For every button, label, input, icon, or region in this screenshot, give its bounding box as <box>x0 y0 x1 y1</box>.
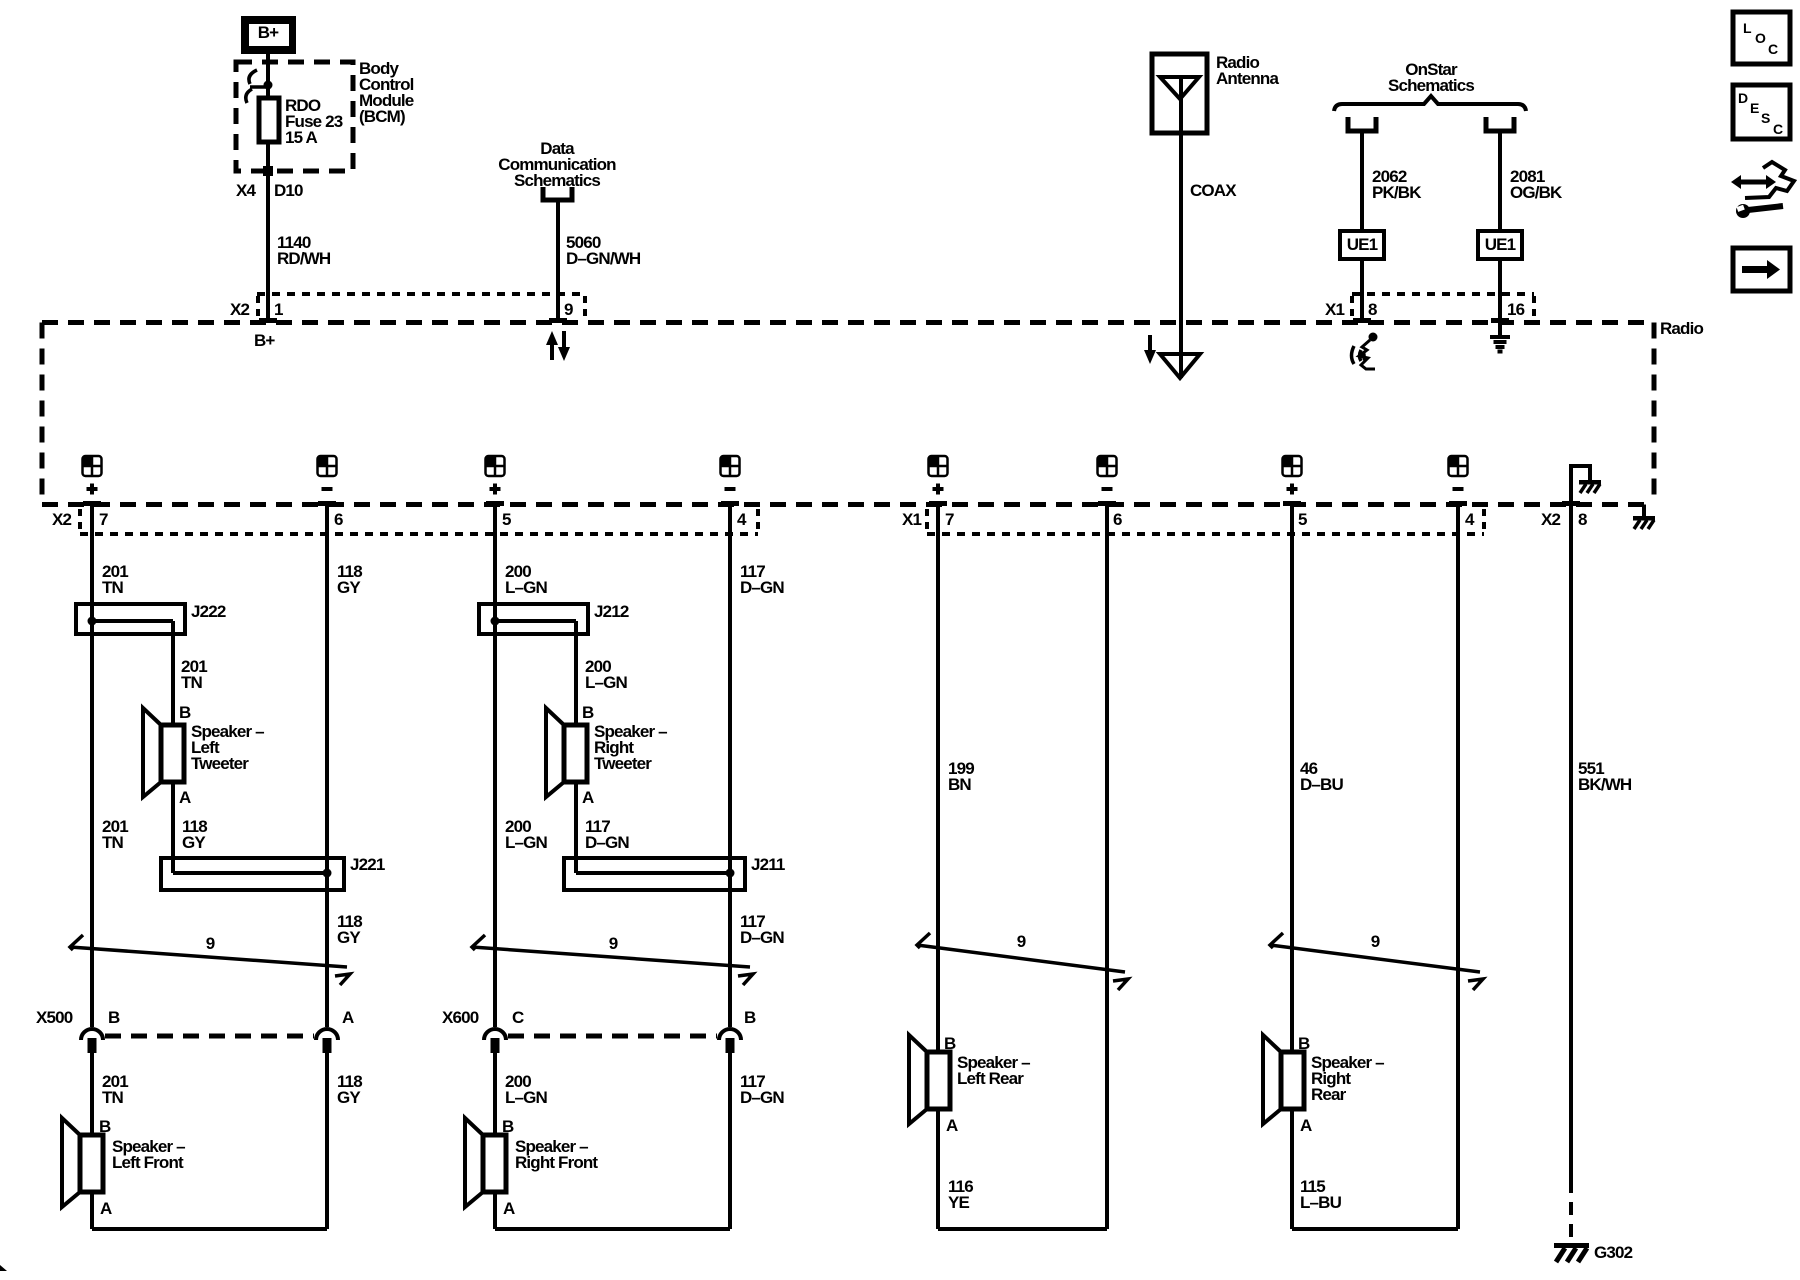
svg-text:GY: GY <box>337 1088 361 1107</box>
svg-text:Right Front: Right Front <box>515 1153 598 1172</box>
svg-text:D–BU: D–BU <box>1300 775 1343 794</box>
svg-text:6: 6 <box>334 510 343 529</box>
svg-text:8: 8 <box>1578 510 1587 529</box>
svg-text:TN: TN <box>102 578 124 597</box>
svg-text:Left Rear: Left Rear <box>957 1069 1024 1088</box>
svg-text:RD/WH: RD/WH <box>277 249 331 268</box>
svg-text:D: D <box>1738 90 1748 106</box>
svg-text:X2: X2 <box>52 510 71 529</box>
svg-text:J212: J212 <box>594 602 629 621</box>
svg-text:1: 1 <box>274 300 283 319</box>
svg-text:GY: GY <box>337 578 361 597</box>
svg-text:J222: J222 <box>191 602 226 621</box>
svg-text:UE1: UE1 <box>1485 235 1516 254</box>
svg-text:A: A <box>342 1008 354 1027</box>
svg-text:X1: X1 <box>902 510 921 529</box>
svg-text:J221: J221 <box>350 855 385 874</box>
svg-text:UE1: UE1 <box>1347 235 1378 254</box>
svg-text:X2: X2 <box>1541 510 1560 529</box>
svg-text:C: C <box>1773 121 1783 137</box>
svg-text:YE: YE <box>948 1193 969 1212</box>
svg-text:B: B <box>108 1008 120 1027</box>
svg-text:9: 9 <box>1017 932 1026 951</box>
svg-text:Left Front: Left Front <box>112 1153 184 1172</box>
svg-text:D–GN: D–GN <box>585 833 629 852</box>
svg-text:TN: TN <box>102 833 124 852</box>
svg-text:J211: J211 <box>751 855 785 874</box>
svg-text:X1: X1 <box>1325 300 1344 319</box>
svg-text:A: A <box>946 1116 958 1135</box>
svg-text:B+: B+ <box>254 331 275 350</box>
svg-text:B: B <box>502 1117 514 1136</box>
svg-text:Tweeter: Tweeter <box>191 754 249 773</box>
svg-text:G302: G302 <box>1594 1243 1633 1262</box>
svg-text:5: 5 <box>1298 510 1307 529</box>
svg-text:D–GN: D–GN <box>740 1088 784 1107</box>
svg-text:D–GN: D–GN <box>740 578 784 597</box>
svg-text:5: 5 <box>502 510 511 529</box>
svg-text:B: B <box>582 703 594 722</box>
svg-text:Rear: Rear <box>1311 1085 1347 1104</box>
svg-text:L–BU: L–BU <box>1300 1193 1342 1212</box>
svg-text:X600: X600 <box>442 1008 479 1027</box>
svg-text:9: 9 <box>609 934 618 953</box>
svg-text:C: C <box>512 1008 524 1027</box>
svg-text:B: B <box>179 703 191 722</box>
svg-text:16: 16 <box>1507 300 1525 319</box>
svg-text:OG/BK: OG/BK <box>1510 183 1563 202</box>
svg-text:D10: D10 <box>274 181 303 200</box>
svg-text:B: B <box>944 1034 956 1053</box>
svg-text:6: 6 <box>1113 510 1122 529</box>
svg-text:Tweeter: Tweeter <box>594 754 652 773</box>
svg-text:Schematics: Schematics <box>1388 76 1474 95</box>
svg-text:D–GN/WH: D–GN/WH <box>566 249 641 268</box>
svg-text:S: S <box>1761 110 1770 126</box>
svg-text:GY: GY <box>182 833 206 852</box>
svg-text:A: A <box>100 1199 112 1218</box>
svg-text:L: L <box>1743 20 1752 36</box>
svg-text:A: A <box>582 788 594 807</box>
svg-text:B: B <box>744 1008 756 1027</box>
svg-text:X500: X500 <box>36 1008 73 1027</box>
svg-text:Radio: Radio <box>1660 319 1703 338</box>
svg-text:TN: TN <box>102 1088 124 1107</box>
svg-text:7: 7 <box>99 510 108 529</box>
svg-text:9: 9 <box>564 300 573 319</box>
svg-text:4: 4 <box>1465 510 1475 529</box>
svg-text:B+: B+ <box>258 23 279 42</box>
svg-text:L–GN: L–GN <box>505 1088 548 1107</box>
svg-text:4: 4 <box>737 510 747 529</box>
svg-text:D–GN: D–GN <box>740 928 784 947</box>
svg-text:TN: TN <box>181 673 203 692</box>
svg-text:L–GN: L–GN <box>585 673 628 692</box>
svg-text:PK/BK: PK/BK <box>1372 183 1422 202</box>
svg-text:9: 9 <box>206 934 215 953</box>
svg-text:COAX: COAX <box>1190 181 1237 200</box>
svg-text:A: A <box>1300 1116 1312 1135</box>
svg-text:O: O <box>1755 30 1766 46</box>
svg-text:X4: X4 <box>236 181 256 200</box>
svg-text:L–GN: L–GN <box>505 833 548 852</box>
svg-text:Antenna: Antenna <box>1216 69 1279 88</box>
svg-text:BK/WH: BK/WH <box>1578 775 1632 794</box>
svg-text:BN: BN <box>948 775 971 794</box>
svg-text:L–GN: L–GN <box>505 578 548 597</box>
svg-text:9: 9 <box>1371 932 1380 951</box>
svg-text:C: C <box>1768 41 1778 57</box>
svg-text:B: B <box>99 1117 111 1136</box>
svg-text:Schematics: Schematics <box>514 171 600 190</box>
svg-text:A: A <box>179 788 191 807</box>
svg-text:(BCM): (BCM) <box>359 107 405 126</box>
svg-text:A: A <box>503 1199 515 1218</box>
svg-text:X2: X2 <box>230 300 249 319</box>
svg-text:GY: GY <box>337 928 361 947</box>
svg-text:7: 7 <box>945 510 954 529</box>
svg-text:15 A: 15 A <box>285 128 317 147</box>
svg-text:B: B <box>1298 1034 1310 1053</box>
svg-text:E: E <box>1750 100 1759 116</box>
svg-text:8: 8 <box>1368 300 1377 319</box>
